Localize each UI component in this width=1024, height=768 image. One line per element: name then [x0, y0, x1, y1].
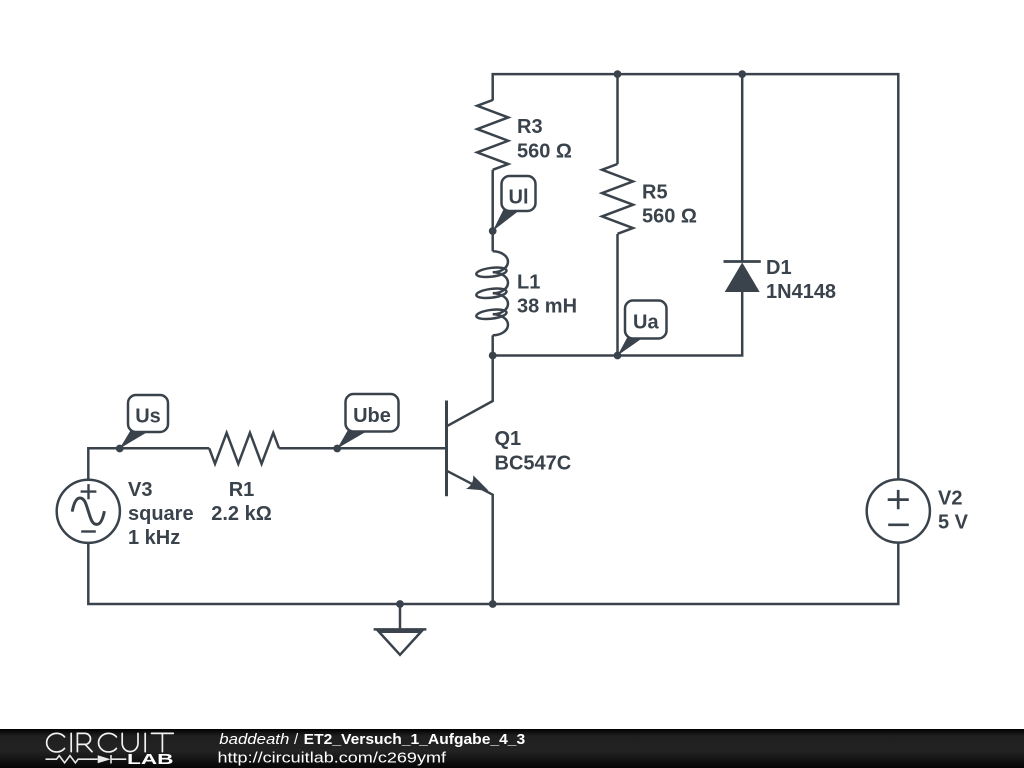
svg-text:BC547C: BC547C	[495, 453, 572, 475]
svg-text:560 Ω: 560 Ω	[517, 141, 572, 163]
wire V3 top to R1	[88, 448, 209, 479]
resistor R3	[477, 100, 508, 170]
resistor R5	[602, 164, 633, 234]
transistor Q1 collector	[448, 356, 493, 426]
wire V2 bottom	[88, 542, 898, 604]
footer bar	[0, 729, 1024, 768]
svg-text:LAB: LAB	[127, 752, 174, 768]
node dot Ul	[489, 227, 497, 235]
svg-text:R5: R5	[642, 182, 668, 204]
wire top rail	[493, 74, 899, 480]
wire D1 branch top	[741, 74, 744, 261]
svg-text:square: square	[128, 503, 194, 525]
svg-text:baddeath: baddeath	[219, 731, 289, 748]
V3 sine wave	[72, 498, 104, 524]
wire R5 branch top	[616, 74, 619, 164]
svg-text:Ube: Ube	[353, 405, 391, 427]
wire mid rail (Ua net)	[493, 292, 743, 356]
voltage source V2 circle	[867, 479, 930, 542]
node dot Ube	[333, 445, 341, 453]
svg-text:560 Ω: 560 Ω	[642, 206, 697, 228]
node flag Us	[120, 395, 168, 449]
wire R1 to Q1 base	[279, 447, 446, 450]
V3 plus sign	[81, 484, 97, 499]
ground bar	[374, 628, 427, 631]
node dot R5 top	[614, 70, 622, 78]
diode D1 triangle	[725, 263, 760, 293]
node flag Ua	[618, 301, 667, 356]
node flag Ube	[337, 394, 398, 449]
svg-text:2.2 kΩ: 2.2 kΩ	[211, 503, 272, 525]
V3 minus sign	[81, 530, 96, 532]
svg-text:38 mH: 38 mH	[517, 296, 577, 318]
wire R3 to L1	[491, 170, 494, 251]
node dot L1 bottom	[489, 352, 497, 360]
ground triangle	[379, 632, 421, 655]
transistor Q1 base bar	[445, 401, 448, 497]
svg-text:1N4148: 1N4148	[766, 281, 836, 303]
ground stem	[399, 604, 402, 629]
node dot ground	[396, 600, 404, 608]
node flag Ul	[493, 176, 536, 231]
svg-text:V2: V2	[938, 488, 962, 510]
svg-text:Q1: Q1	[495, 428, 522, 450]
CircuitLab logo squiggle with resistor and diode	[46, 755, 127, 764]
svg-text:Ul: Ul	[509, 187, 529, 209]
svg-text:L1: L1	[517, 272, 540, 294]
svg-text:1 kHz: 1 kHz	[128, 527, 180, 549]
svg-text:R3: R3	[517, 116, 543, 138]
svg-text:ET2_Versuch_1_Aufgabe_4_3: ET2_Versuch_1_Aufgabe_4_3	[304, 731, 526, 748]
node dot emitter	[489, 600, 497, 608]
svg-text:http://circuitlab.com/c269ymf: http://circuitlab.com/c269ymf	[218, 749, 447, 766]
V2 minus sign	[888, 523, 909, 526]
node dot Ua	[614, 352, 622, 360]
transistor Q1 emitter arrow	[466, 475, 489, 491]
node dot D1 top	[738, 70, 746, 78]
wire R5 bottom	[616, 234, 619, 356]
svg-text:V3: V3	[128, 479, 152, 501]
transistor Q1 emitter	[448, 471, 493, 604]
wire L1 bottom	[491, 335, 494, 355]
inductor L1	[493, 251, 508, 335]
resistor R1	[209, 433, 279, 464]
svg-text:Ua: Ua	[633, 312, 659, 334]
diode D1 cathode bar	[724, 260, 761, 263]
voltage source V3 circle	[57, 480, 120, 543]
svg-text:Us: Us	[135, 406, 161, 428]
node dot Us	[116, 445, 124, 453]
CircuitLab logo word CIRCUIT	[47, 733, 174, 752]
V2 plus sign	[888, 490, 909, 509]
svg-text:5 V: 5 V	[938, 512, 969, 534]
svg-text:R1: R1	[229, 479, 255, 501]
svg-text:D1: D1	[766, 257, 792, 279]
